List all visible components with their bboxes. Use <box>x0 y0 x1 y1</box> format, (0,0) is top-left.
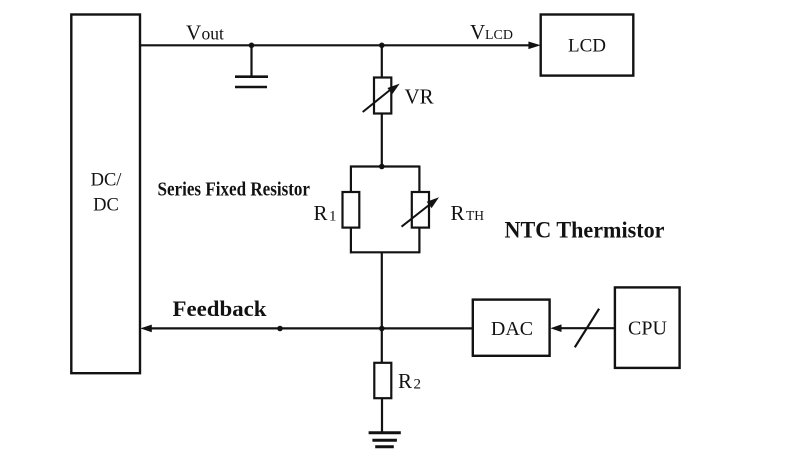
node A (Vout / capacitor junction) <box>249 43 255 49</box>
node D (feedback junction) <box>379 326 385 332</box>
thermistor RTH (variable) <box>402 192 440 228</box>
svg-text:2: 2 <box>414 377 422 393</box>
label R1 <box>314 201 337 225</box>
wire bottom bar of parallel branch <box>350 251 420 253</box>
svg-text:V: V <box>470 20 485 44</box>
svg-text:V: V <box>186 20 201 44</box>
node C (top of parallel R1/RTH) <box>379 164 385 170</box>
block CPU <box>615 287 680 368</box>
svg-text:NTC Thermistor: NTC Thermistor <box>505 218 665 244</box>
svg-text:DC/: DC/ <box>91 171 123 191</box>
svg-text:LCD: LCD <box>485 28 513 43</box>
svg-text:R: R <box>314 201 328 225</box>
svg-text:CPU: CPU <box>628 317 667 339</box>
node B (Vout / VR junction) <box>379 43 385 49</box>
svg-text:R: R <box>451 201 465 225</box>
ground <box>369 433 401 447</box>
svg-text:Feedback: Feedback <box>173 296 267 321</box>
wire CPU to DAC with arrow <box>550 324 615 332</box>
wire VR to node C <box>381 114 383 167</box>
capacitor C1 (decoupling on Vout) <box>235 45 268 87</box>
wire left branch lower <box>350 228 352 254</box>
label VLCD <box>470 20 513 44</box>
wire node B to VR <box>381 45 383 78</box>
svg-text:out: out <box>202 23 225 43</box>
svg-text:1: 1 <box>329 209 337 225</box>
resistor R1 <box>343 192 360 228</box>
svg-text:DC: DC <box>93 196 119 216</box>
svg-text:TH: TH <box>466 208 484 223</box>
wire Vout net (DC/DC output to LCD) <box>140 42 541 50</box>
variable resistor VR <box>363 78 400 114</box>
wire right branch upper <box>418 166 420 194</box>
node E (junction on feedback line) <box>277 326 283 332</box>
label R2 <box>398 369 421 393</box>
wire R2 to ground <box>381 398 383 433</box>
block DAC <box>473 300 550 356</box>
block U1 DC/DC converter <box>71 15 140 374</box>
label Vout <box>186 20 224 44</box>
block LCD <box>541 15 634 76</box>
wire right branch lower <box>418 228 420 254</box>
svg-text:LCD: LCD <box>568 36 606 57</box>
resistor R2 <box>374 363 391 398</box>
wire left branch upper <box>350 166 352 194</box>
wire top bar of parallel branch <box>350 165 420 167</box>
bus slash on CPU-DAC wire <box>575 309 599 348</box>
svg-text:Series Fixed Resistor: Series Fixed Resistor <box>158 179 311 201</box>
svg-text:DAC: DAC <box>491 318 533 340</box>
svg-text:R: R <box>398 369 412 393</box>
wire parallel branch to node D <box>381 252 383 362</box>
label RTH <box>451 201 485 225</box>
wire feedback line with arrow into DC/DC <box>140 325 473 333</box>
svg-text:VR: VR <box>405 85 434 109</box>
